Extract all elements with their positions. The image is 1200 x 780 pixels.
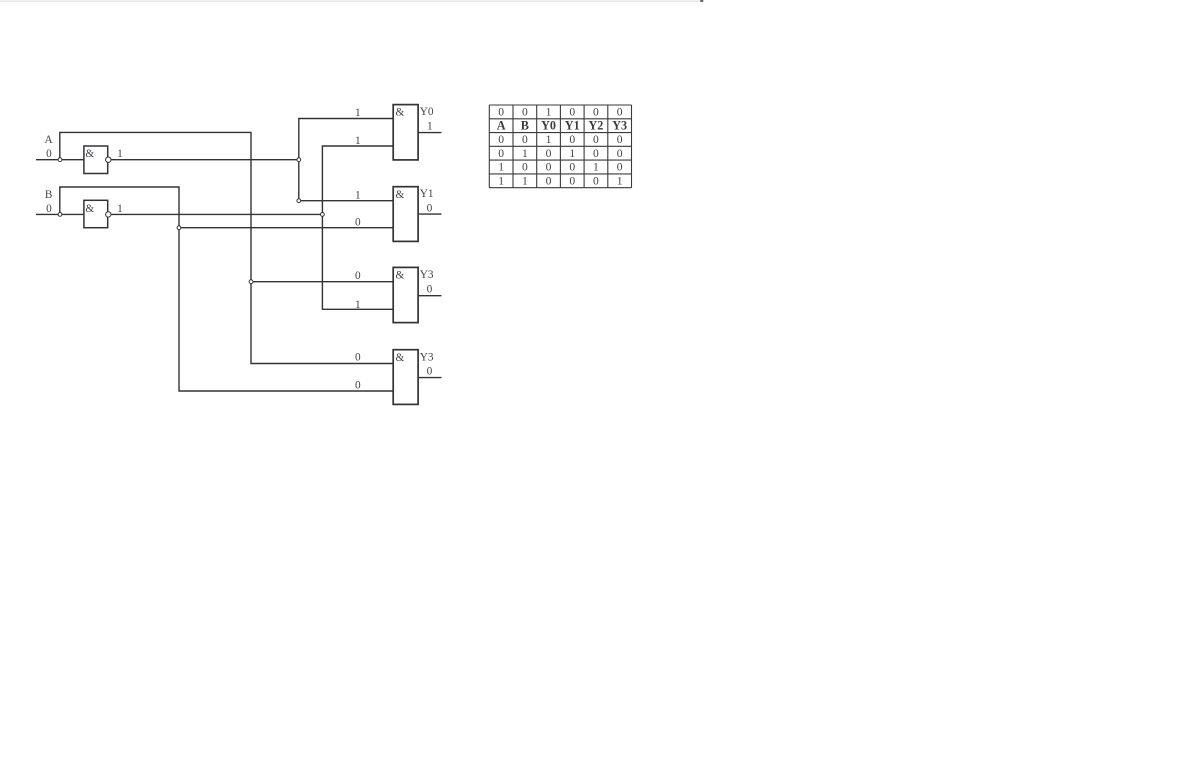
svg-text:0: 0 [427, 365, 433, 377]
svg-text:0: 0 [593, 174, 599, 187]
svg-text:0: 0 [617, 133, 623, 146]
svg-text:&: & [85, 148, 94, 160]
svg-text:0: 0 [569, 133, 575, 146]
svg-text:1: 1 [569, 147, 575, 160]
svg-text:0: 0 [522, 106, 528, 119]
svg-text:0: 0 [569, 174, 575, 187]
svg-text:0: 0 [498, 133, 504, 146]
svg-text:1: 1 [522, 147, 528, 160]
svg-text:0: 0 [617, 161, 623, 174]
svg-text:Y3: Y3 [420, 269, 434, 281]
svg-text:1: 1 [522, 174, 528, 187]
svg-text:0: 0 [522, 161, 528, 174]
svg-text:1: 1 [498, 174, 504, 187]
svg-text:B: B [45, 189, 53, 201]
svg-text:1: 1 [546, 133, 552, 146]
svg-text:&: & [396, 270, 405, 282]
svg-text:0: 0 [617, 106, 623, 119]
svg-text:0: 0 [498, 147, 504, 160]
svg-text:A: A [497, 118, 506, 132]
svg-text:0: 0 [46, 148, 52, 160]
svg-text:0: 0 [546, 147, 552, 160]
svg-text:&: & [396, 352, 405, 364]
svg-text:0: 0 [498, 106, 504, 119]
svg-text:0: 0 [569, 161, 575, 174]
svg-text:1: 1 [355, 135, 361, 147]
svg-text:1: 1 [355, 107, 361, 119]
svg-text:0: 0 [46, 203, 52, 215]
svg-text:0: 0 [427, 202, 433, 214]
svg-text:1: 1 [546, 106, 552, 119]
svg-text:0: 0 [546, 174, 552, 187]
svg-text:0: 0 [593, 106, 599, 119]
svg-text:1: 1 [498, 161, 504, 174]
svg-text:Y1: Y1 [565, 118, 580, 132]
svg-text:Y0: Y0 [420, 106, 434, 118]
svg-text:A: A [45, 134, 54, 146]
svg-text:1: 1 [117, 148, 123, 160]
svg-text:Y3: Y3 [612, 118, 627, 132]
svg-text:0: 0 [522, 133, 528, 146]
svg-text:1: 1 [593, 161, 599, 174]
svg-text:Y0: Y0 [541, 118, 556, 132]
svg-text:1: 1 [117, 203, 123, 215]
svg-text:0: 0 [546, 161, 552, 174]
svg-text:0: 0 [427, 283, 433, 295]
svg-text:1: 1 [355, 299, 361, 311]
svg-text:&: & [85, 203, 94, 215]
svg-text:1: 1 [355, 190, 361, 202]
svg-text:0: 0 [355, 380, 361, 392]
svg-text:0: 0 [617, 147, 623, 160]
svg-text:Y2: Y2 [588, 118, 603, 132]
svg-text:1: 1 [427, 121, 433, 133]
svg-text:0: 0 [355, 352, 361, 364]
svg-text:&: & [396, 189, 405, 201]
svg-text:Y1: Y1 [420, 188, 434, 200]
svg-text:&: & [396, 107, 405, 119]
svg-text:0: 0 [355, 270, 361, 282]
svg-text:0: 0 [593, 133, 599, 146]
svg-text:0: 0 [355, 217, 361, 229]
svg-text:1: 1 [617, 174, 623, 187]
svg-text:B: B [521, 118, 529, 132]
svg-text:0: 0 [569, 106, 575, 119]
svg-text:Y3: Y3 [420, 351, 434, 363]
svg-text:0: 0 [593, 147, 599, 160]
